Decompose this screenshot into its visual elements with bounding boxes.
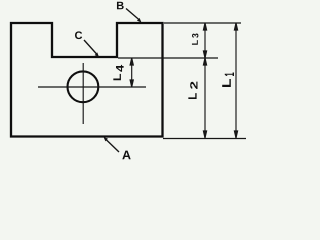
centerline vertical xyxy=(82,63,84,124)
hole circle xyxy=(68,71,99,102)
dimension L1 line xyxy=(234,23,237,138)
dimension L3 line xyxy=(203,23,206,58)
leader A xyxy=(105,138,119,152)
dimension L4 line xyxy=(130,58,133,87)
extension line top xyxy=(164,22,241,24)
centerline horizontal xyxy=(38,86,146,88)
extension line notch bottom xyxy=(118,57,218,59)
dimension L2 line xyxy=(203,58,206,138)
part outline xyxy=(11,23,163,137)
label L4 xyxy=(113,74,121,80)
label B xyxy=(117,2,124,10)
label C xyxy=(75,31,82,39)
label A xyxy=(122,151,130,160)
extension line bottom xyxy=(163,138,246,140)
label L2 xyxy=(188,93,196,99)
label L3 xyxy=(192,40,198,45)
leader C xyxy=(84,40,98,56)
label L1 xyxy=(222,79,231,87)
leader B xyxy=(126,9,140,22)
